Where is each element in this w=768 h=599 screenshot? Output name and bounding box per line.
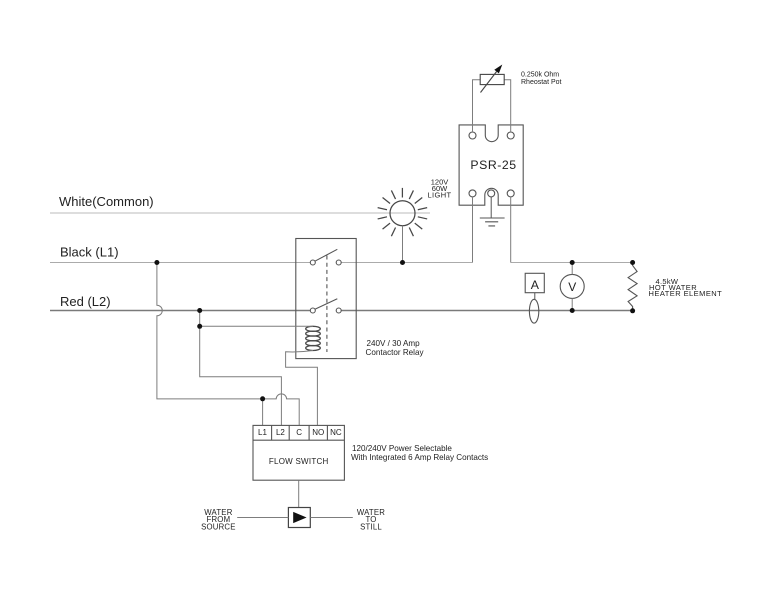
svg-text:White(Common): White(Common) (59, 194, 154, 209)
svg-text:HEATER ELEMENT: HEATER ELEMENT (649, 289, 723, 298)
svg-text:With Integrated 6 Amp Relay Co: With Integrated 6 Amp Relay Contacts (351, 453, 488, 462)
svg-text:C: C (296, 428, 302, 437)
svg-text:NO: NO (312, 428, 324, 437)
svg-text:L1: L1 (258, 428, 267, 437)
svg-text:0.250k Ohm: 0.250k Ohm (521, 71, 559, 78)
svg-text:FLOW SWITCH: FLOW SWITCH (269, 457, 329, 466)
svg-text:L2: L2 (276, 428, 285, 437)
svg-text:STILL: STILL (360, 522, 382, 531)
svg-text:Rheostat Pot: Rheostat Pot (521, 79, 562, 86)
svg-text:Contactor Relay: Contactor Relay (366, 348, 425, 357)
svg-text:PSR-25: PSR-25 (470, 158, 516, 172)
svg-text:V: V (568, 280, 576, 294)
svg-text:A: A (531, 278, 540, 292)
svg-text:SOURCE: SOURCE (201, 522, 236, 531)
svg-text:Red (L2): Red (L2) (60, 294, 111, 309)
svg-text:NC: NC (330, 428, 342, 437)
svg-text:Black (L1): Black (L1) (60, 245, 119, 260)
svg-text:120/240V Power Selectable: 120/240V Power Selectable (352, 444, 452, 453)
svg-text:LIGHT: LIGHT (427, 190, 451, 199)
